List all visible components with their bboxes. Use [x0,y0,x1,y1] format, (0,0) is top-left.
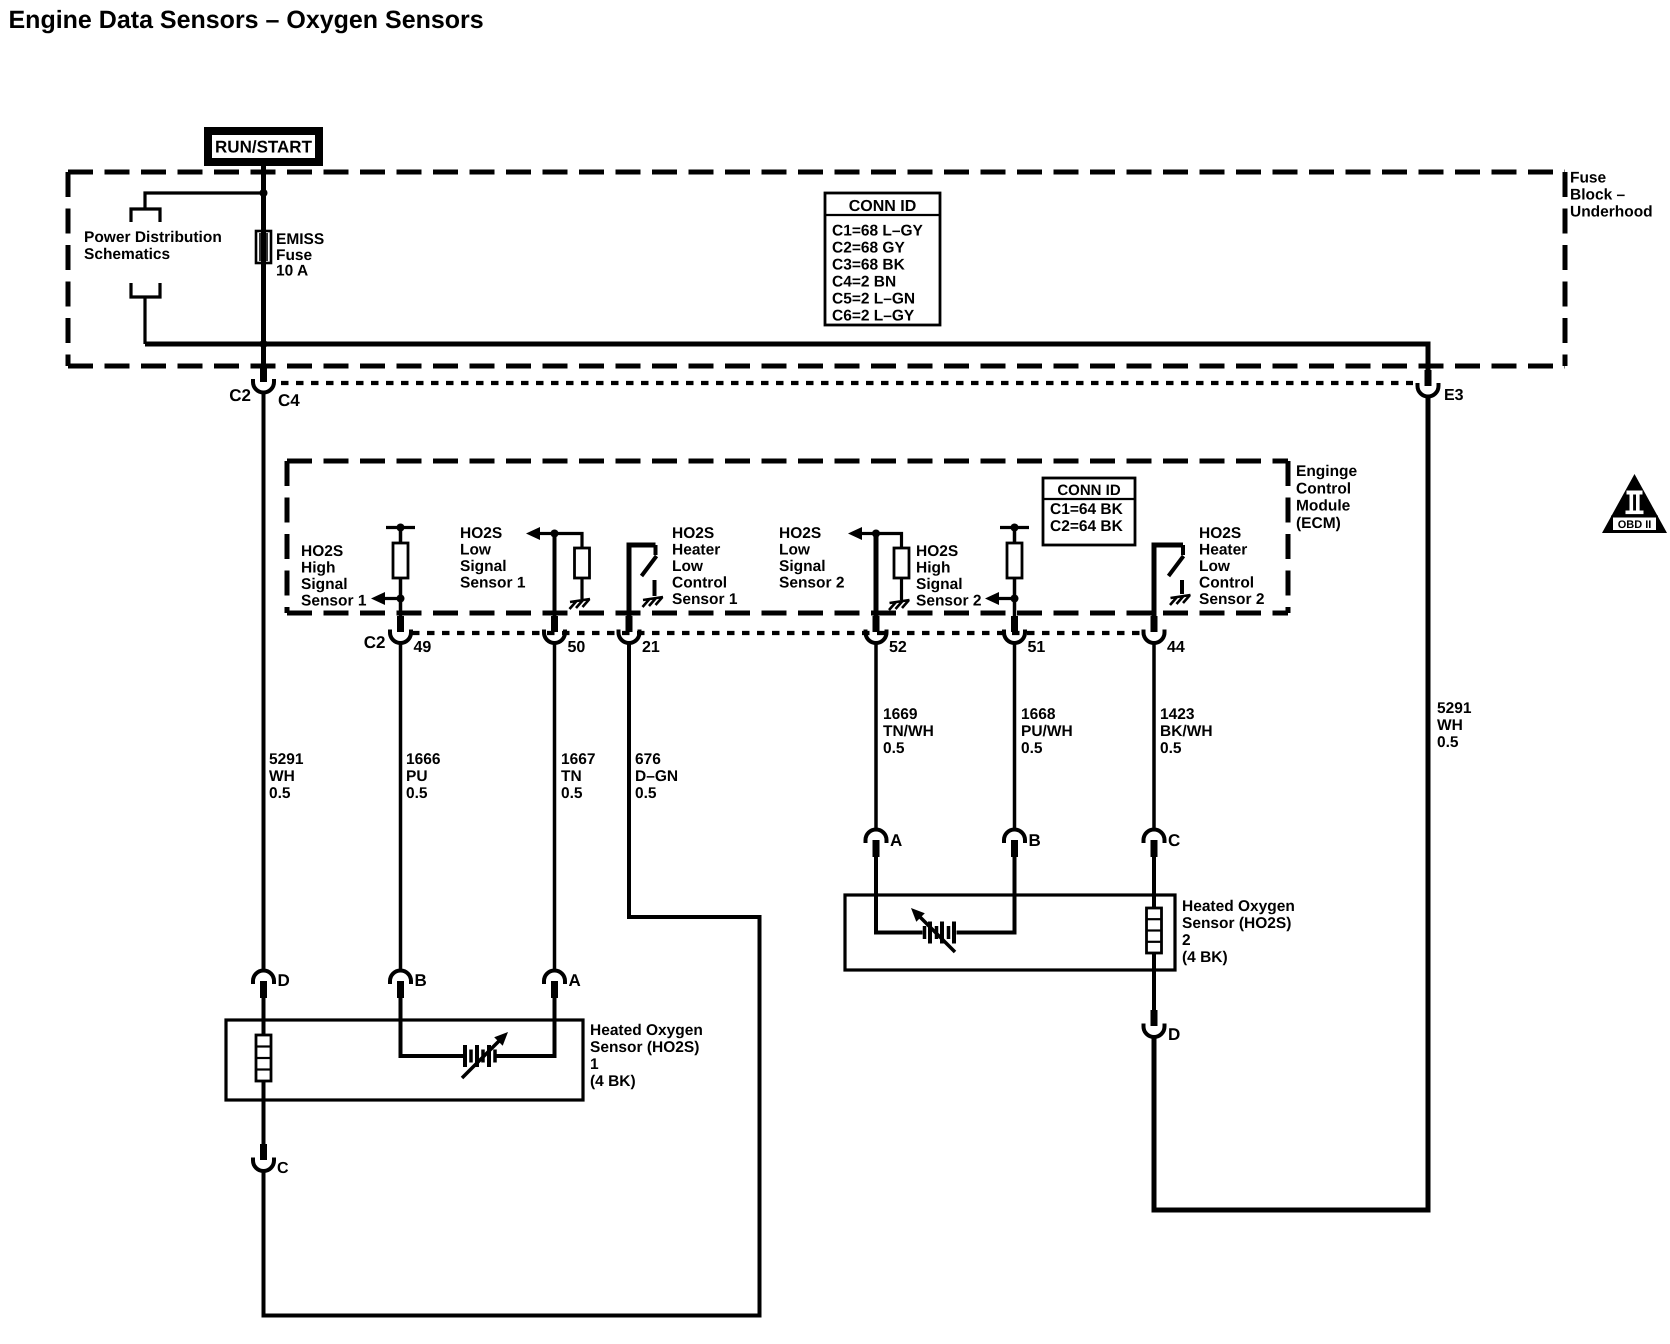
svg-text:0.5: 0.5 [561,785,583,802]
heated oxygen sensor 2 box [845,895,1175,970]
svg-text:TN/WH: TN/WH [883,723,934,740]
wire 5291 WH left (C4 to D) [262,393,266,971]
label circuit 1666 PU 0.5 [406,751,441,802]
svg-text:5291: 5291 [269,751,304,768]
connector id table (ECM) [1043,478,1135,545]
junction pin 51 [1011,595,1019,603]
arrow to HO2S low signal sensor 2 [848,527,876,540]
wire terminal A to heater [497,998,555,1056]
svg-text:Low: Low [672,558,704,575]
svg-text:Fuse: Fuse [276,247,313,264]
wire terminal C through sensor 2 [1152,857,1156,1011]
svg-text:Heated Oxygen: Heated Oxygen [1182,898,1295,915]
heater element sensor 2 [923,922,956,944]
junction pin 49 [397,595,405,603]
label circuit 1423 BK/WH 0.5 [1160,706,1213,757]
junction pin 52 [872,530,880,538]
wire switch to ground [653,580,657,596]
svg-text:Low: Low [1199,558,1231,575]
wire pin 50 riser [553,534,557,618]
inline connector block sensor 2 [1147,908,1162,953]
connector pin 52 [866,616,887,643]
svg-text:D: D [1168,1025,1180,1044]
resistor HO2S high signal sensor 2 [1007,543,1022,578]
svg-text:0.5: 0.5 [883,740,905,757]
svg-text:Enginge: Enginge [1296,463,1358,480]
wire terminal B to heater [401,998,464,1056]
svg-text:Sensor 1: Sensor 1 [460,575,526,592]
svg-text:C1=68 L–GY: C1=68 L–GY [832,223,924,240]
wire branch to sense resistor [555,534,583,549]
svg-text:PU/WH: PU/WH [1021,723,1073,740]
svg-text:52: 52 [889,639,907,656]
connector pin 44 [1144,616,1165,643]
wire resistor to ground 2 [900,578,903,600]
label fuse EMISS [276,231,324,280]
connector terminal B (HO2S 1) [390,971,411,999]
svg-text:Sensor 2: Sensor 2 [1199,591,1264,608]
wire bracket to bus [143,297,146,344]
ground (heater control 1) [643,597,664,607]
svg-text:High: High [301,560,335,577]
svg-text:PU: PU [406,768,428,785]
connector terminal A (HO2S 2) [866,830,887,858]
switch contact hook 2 [1181,545,1185,555]
switch feed RUN/START [208,131,319,162]
svg-text:D: D [278,971,290,990]
svg-text:Heater: Heater [672,542,720,559]
label HO2S low signal sensor 2 [779,525,844,592]
svg-text:Fuse: Fuse [1570,170,1607,187]
svg-text:C: C [1168,831,1180,850]
label power distribution schematics [84,229,222,263]
svg-text:CONN ID: CONN ID [1057,482,1121,499]
svg-text:Power Distribution: Power Distribution [84,229,222,246]
svg-text:Low: Low [779,542,811,559]
connector terminal D (HO2S 2) [1144,1010,1165,1037]
svg-text:2: 2 [1182,932,1191,949]
wire terminal B to heater 2 [957,857,1015,933]
label HO2S low signal sensor 1 [460,525,526,592]
svg-text:Signal: Signal [779,558,826,575]
wire 1668 PU/WH (51 to B) [1013,643,1017,829]
label ECM [1296,463,1358,532]
wire pin 44 riser [1154,545,1183,617]
svg-text:Sensor 2: Sensor 2 [779,575,844,592]
engine control module boundary [287,461,1288,613]
svg-text:Control: Control [1296,480,1351,497]
svg-text:EMISS: EMISS [276,231,324,248]
fuse block label [1570,170,1653,221]
label circuit 5291 WH 0.5 right [1437,700,1472,751]
fuse EMISS 10 A [256,231,271,263]
svg-text:Heated Oxygen: Heated Oxygen [590,1022,703,1039]
svg-text:0.5: 0.5 [1437,734,1459,751]
svg-text:OBD II: OBD II [1618,519,1652,531]
connector id table (fuse block) [825,193,940,325]
svg-text:WH: WH [1437,717,1463,734]
wire pin 52 riser [874,534,879,618]
ground (sensor 2 low) [889,600,910,610]
svg-text:50: 50 [568,639,586,656]
svg-text:Signal: Signal [916,576,963,593]
wire tick to resistor 51 [1013,528,1017,544]
svg-text:0.5: 0.5 [406,785,428,802]
wire 1423 BK/WH (44 to C) [1152,643,1156,829]
label circuit 5291 WH 0.5 left [269,751,304,802]
ground (sensor 1 low) [570,599,591,609]
wire terminal D through sensor 1 [262,998,266,1145]
svg-text:C6=2 L–GY: C6=2 L–GY [832,308,915,325]
svg-text:Heater: Heater [1199,542,1247,559]
svg-text:BK/WH: BK/WH [1160,723,1213,740]
svg-text:TN: TN [561,768,582,785]
svg-text:C2: C2 [364,633,386,652]
connector pin 51 [1004,616,1025,643]
wire 1669 TN/WH (52 to A) [874,643,878,829]
off-page reference (power distribution) top bracket [131,209,160,222]
svg-text:A: A [890,831,902,850]
svg-text:HO2S: HO2S [779,525,821,542]
svg-text:HO2S: HO2S [460,525,502,542]
svg-text:HO2S: HO2S [916,543,958,560]
svg-text:Module: Module [1296,498,1351,515]
svg-text:CONN ID: CONN ID [849,198,917,215]
arrow to HO2S high signal sensor 1 [371,592,401,605]
harness dotted line (C4 row) [281,381,1413,385]
inline connector block sensor 1 [256,1035,271,1081]
connector terminal A (HO2S 1) [544,971,565,999]
svg-text:C2=64 BK: C2=64 BK [1050,518,1124,535]
svg-text:C: C [277,1160,289,1177]
svg-text:1667: 1667 [561,751,595,768]
svg-text:C4=2 BN: C4=2 BN [832,274,896,291]
wire ignition feed [261,162,266,233]
label heated oxygen sensor 1 [590,1022,703,1090]
connector pin 21 [619,616,640,643]
label HO2S heater low control sensor 1 [672,525,738,608]
fuse block underhood boundary [68,172,1565,366]
connector C2/C4 [253,366,274,393]
label HO2S high signal sensor 2 [916,543,981,610]
connector terminal C (HO2S 1) [253,1144,274,1171]
wire branch to sense resistor 2 [876,534,902,549]
label heated oxygen sensor 2 [1182,898,1295,966]
wire resistor to ground [580,578,583,599]
svg-text:0.5: 0.5 [269,785,291,802]
resistor HO2S low signal sensor 1 [575,548,590,578]
wire resistor to pin 51 [1013,578,1017,617]
harness dotted line (ECM connector row) [412,631,1144,635]
switch contact hook [654,545,658,555]
svg-text:B: B [415,971,427,990]
svg-text:C4: C4 [278,391,300,410]
svg-text:49: 49 [414,639,432,656]
svg-text:51: 51 [1028,639,1046,656]
svg-text:WH: WH [269,768,295,785]
svg-text:Block –: Block – [1570,187,1626,204]
connector pin 49 [390,616,411,643]
wire 1666 PU (49 to B) [399,643,403,971]
OBD II marker [1602,474,1667,533]
svg-text:5291: 5291 [1437,700,1472,717]
svg-text:Schematics: Schematics [84,246,170,263]
svg-text:21: 21 [642,639,660,656]
wire 676 D-GN (21 to heater return) [264,643,760,1316]
svg-text:E3: E3 [1444,387,1464,404]
svg-text:1669: 1669 [883,706,918,723]
svg-text:B: B [1029,831,1041,850]
svg-text:1: 1 [590,1056,599,1073]
wire fuse output [261,263,266,368]
label HO2S high signal sensor 1 [301,543,367,610]
svg-text:(ECM): (ECM) [1296,515,1341,532]
node 51 internal rail tick [1000,524,1029,532]
svg-text:HO2S: HO2S [1199,525,1241,542]
svg-text:D–GN: D–GN [635,768,678,785]
off-page reference bottom bracket [131,283,160,297]
svg-text:0.5: 0.5 [1021,740,1043,757]
connector pin 50 [544,616,565,643]
variable arrow sensor 1 [462,1032,508,1078]
node 49 internal rail tick [386,524,415,532]
svg-text:Sensor 1: Sensor 1 [301,593,367,610]
svg-text:0.5: 0.5 [1160,740,1182,757]
wire pin 21 riser [629,545,656,617]
wire 1667 TN (50 to A) [553,643,557,971]
svg-text:C3=68 BK: C3=68 BK [832,257,906,274]
svg-text:Low: Low [460,542,492,559]
svg-text:1423: 1423 [1160,706,1195,723]
junction [260,189,268,197]
connector terminal C (HO2S 2) [1144,830,1165,858]
resistor HO2S high signal sensor 1 [393,543,408,578]
wire terminal A to heater 2 [876,857,923,933]
svg-text:A: A [569,971,581,990]
svg-text:Underhood: Underhood [1570,204,1653,221]
svg-text:Sensor (HO2S): Sensor (HO2S) [590,1039,699,1056]
connector terminal D (HO2S 1) [253,971,274,999]
heated oxygen sensor 1 box [226,1020,583,1100]
svg-text:10 A: 10 A [276,263,308,280]
label circuit 1667 TN 0.5 [561,751,595,802]
svg-text:Signal: Signal [301,576,348,593]
wire branch to power distribution [145,193,264,208]
svg-text:C2: C2 [229,386,251,405]
bus wire inside fuse block [145,344,1428,372]
svg-text:RUN/START: RUN/START [215,138,313,157]
resistor HO2S low signal sensor 2 [894,548,909,578]
svg-text:Engine Data Sensors – Oxygen S: Engine Data Sensors – Oxygen Sensors [9,6,484,34]
svg-text:Signal: Signal [460,558,507,575]
junction pin 50 [551,530,559,538]
variable arrow sensor 2 [911,908,955,952]
svg-text:Sensor (HO2S): Sensor (HO2S) [1182,915,1291,932]
svg-text:C1=64 BK: C1=64 BK [1050,501,1124,518]
wire resistor to pin 49 [399,578,403,617]
svg-text:Control: Control [672,575,727,592]
heater element sensor 1 [463,1045,497,1067]
svg-text:Control: Control [1199,575,1254,592]
svg-text:676: 676 [635,751,661,768]
svg-text:1666: 1666 [406,751,441,768]
wire tick to resistor [399,528,403,544]
svg-text:C2=68 GY: C2=68 GY [832,240,905,257]
svg-text:44: 44 [1167,639,1185,656]
connector E3 [1418,370,1439,397]
connector terminal B (HO2S 2) [1004,830,1025,858]
svg-text:C5=2 L–GN: C5=2 L–GN [832,291,915,308]
wire switch to ground 2 [1180,580,1184,594]
junction at bus [260,340,268,348]
wire 5291 WH right (E3 to HO2S 2) [1154,396,1428,1210]
switch blade heater low control sensor 1 [642,556,657,576]
svg-text:Sensor 1: Sensor 1 [672,591,738,608]
svg-text:1668: 1668 [1021,706,1056,723]
svg-text:HO2S: HO2S [672,525,714,542]
svg-text:0.5: 0.5 [635,785,657,802]
switch blade heater low control sensor 2 [1169,556,1184,576]
svg-text:(4 BK): (4 BK) [590,1073,636,1090]
label HO2S heater low control sensor 2 [1199,525,1264,608]
ground (heater control 2) [1170,595,1191,605]
svg-text:(4 BK): (4 BK) [1182,949,1228,966]
label circuit 1668 PU/WH 0.5 [1021,706,1073,757]
svg-text:HO2S: HO2S [301,543,343,560]
arrow to HO2S high signal sensor 2 [985,592,1015,605]
svg-text:High: High [916,560,950,577]
label circuit 1669 TN/WH 0.5 [883,706,934,757]
svg-text:Sensor 2: Sensor 2 [916,593,981,610]
arrow to HO2S low signal sensor 1 [526,527,555,540]
label circuit 676 D-GN 0.5 [635,751,678,802]
